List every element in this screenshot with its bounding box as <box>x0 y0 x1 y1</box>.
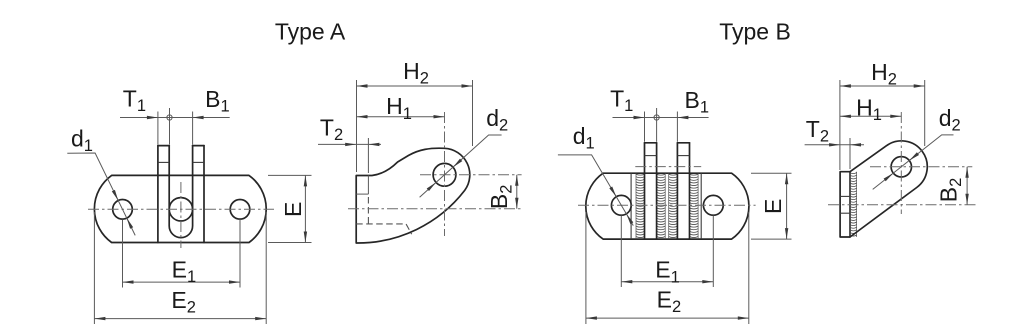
leader d2 (Type A): diagonal through hole and shoulder <box>420 135 502 197</box>
dimension E2 (Type A): dimension line with arrows <box>94 318 266 320</box>
Type A side: body outline <box>356 148 470 243</box>
svg-text:Type A: Type A <box>275 19 346 45</box>
dimension T1 B1 (Type A): extension line left prong outer edge <box>157 112 159 145</box>
leader d2 (Type B): diagonal through hole and shoulder <box>873 135 954 190</box>
Type A front: clevis fork outer edges <box>158 146 204 243</box>
Type A front: horizontal centerline <box>88 208 274 210</box>
Type B front: base plate outline <box>586 173 749 239</box>
dimension T2 (Type B): extension line <box>849 138 851 169</box>
Type A side: hole vertical centerline <box>444 112 446 236</box>
Type B side: rubber pad inner lines <box>840 196 850 213</box>
Type B side: bonded surface hatch column <box>850 172 857 237</box>
Type A front: prong step lines <box>158 161 204 163</box>
svg-text:E: E <box>280 202 306 217</box>
Type B front: right tab <box>677 143 689 239</box>
Type B front: rubber element hatch left strip <box>636 173 645 239</box>
dimension T1 B1 (Type A): shared boundary line with circle marker <box>169 108 171 145</box>
dimension B2 (Type A): dimension line with arrows <box>516 175 518 209</box>
Type B front: hatch zone boundary lines <box>631 173 701 239</box>
dimension H1 (Type A): dimension line with arrows <box>357 116 445 118</box>
Type B front: left mounting hole d1 <box>611 195 631 215</box>
dimension T2 (Type A): arrows outside <box>345 143 356 146</box>
Type A front: clevis pin hole <box>169 198 192 221</box>
leader d1 (Type A): shoulder and diagonal through hole <box>67 153 135 235</box>
dimension E (Type B): extension lines <box>751 172 792 174</box>
Type A front: base plate outline <box>94 175 266 242</box>
dimension E1 (Type A): dimension line with arrows <box>123 281 241 283</box>
dimension H2 (Type B): extension lines <box>839 80 841 170</box>
leader d1 (Type B): shoulder and diagonal <box>558 155 633 226</box>
dimension E2 (Type A): extension lines from plate ends <box>93 212 95 324</box>
Type B side: main horizontal centerline <box>828 204 977 206</box>
leader d1 (Type A): arrows at hole <box>112 190 118 201</box>
Type A front: left mounting hole d1 <box>113 200 133 220</box>
Type B side: pivot hole d2 <box>891 157 911 177</box>
dimension T2 (Type B): dimension line <box>805 144 864 146</box>
dimension E2 (Type B): dimension line with arrows <box>586 317 749 319</box>
svg-text:Type B: Type B <box>719 19 791 45</box>
dimension E1 (Type B): dimension line with arrows <box>621 281 713 283</box>
Type A front: slot vertical centerline <box>180 182 182 248</box>
Type A side: pivot hole d2 <box>433 163 456 186</box>
dimension B2 (Type B): dimension line with arrows <box>966 167 968 205</box>
dimension H2 (Type B): dimension line with arrows <box>840 85 925 87</box>
Type B front: rubber element hatch right strip <box>690 173 699 239</box>
dimension H2 (Type A): extension lines <box>356 80 358 172</box>
Type B side: hole vertical centerline <box>900 112 902 214</box>
Type B front: rubber element hatch center-left strip <box>657 173 666 239</box>
Type A front: clevis slot inner edges with rounded bottom <box>169 146 192 238</box>
Type B side: rubber pad rectangle <box>840 172 850 237</box>
dimension E1 (Type A): extension lines from hole centers <box>122 220 124 288</box>
Type B side: hole horizontal centerline <box>870 166 972 168</box>
dimension T1 B1 (Type A): arrows <box>147 116 158 119</box>
dimension E (Type A): extension lines <box>268 174 312 176</box>
Type A side: plate thickness edge (solid part) <box>356 176 368 195</box>
dimension T1 B1 (Type B): dimension line <box>613 117 709 119</box>
Type B front: pivot axis dash-dot line <box>635 166 701 168</box>
dimension E (Type B): dimension line with arrows <box>786 173 788 239</box>
Type A side: hidden plate edge <box>367 197 369 224</box>
dimension E2 (Type B): extension lines <box>585 212 587 324</box>
dimension E1 (Type B): extension lines <box>620 216 622 288</box>
dimension T2 (Type A): dimension line <box>318 143 381 145</box>
svg-text:E: E <box>760 199 786 214</box>
Type A side: main horizontal centerline <box>348 208 522 210</box>
Type B side: bracket outline <box>850 141 927 237</box>
Type B front: horizontal centerline <box>578 204 756 206</box>
Type B front: left tab <box>645 143 657 239</box>
dimension T1 B1 (Type A): dimension line <box>120 117 230 119</box>
dimension T1 B1 (Type B): extension lines <box>644 112 646 142</box>
Type B front: right mounting hole <box>703 195 723 215</box>
dimension E (Type A): dimension line with arrows <box>304 175 306 242</box>
dimension T1 B1 (Type A): extension line slot right edge <box>192 112 194 145</box>
Type B front: tab step lines <box>645 155 690 157</box>
Type A side: hole horizontal centerline <box>420 174 522 176</box>
Type B front: rubber element hatch center-right strip <box>669 173 678 239</box>
Type A front: right mounting hole <box>230 200 250 220</box>
Type A side: hidden block bottom edge with chamfer <box>356 224 412 234</box>
dimension T2 (Type A): extension line <box>367 138 369 173</box>
dimension H1 (Type B): dimension line with arrows <box>840 115 901 117</box>
dimension H2 (Type A): dimension line with arrows <box>357 85 473 87</box>
